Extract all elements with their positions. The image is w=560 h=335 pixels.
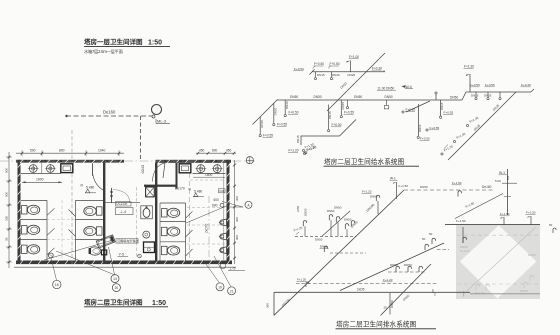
toilet M1 xyxy=(84,206,102,215)
service shaft dashed line xyxy=(136,187,138,258)
riser: centre below 2 xyxy=(340,100,354,118)
svg-text:F+1.20: F+1.20 xyxy=(289,149,299,153)
grid bubble top-right xyxy=(246,157,253,164)
wire: dark line above watermark xyxy=(445,223,540,225)
counter line left sinks xyxy=(21,172,62,174)
wire: right branch end tick xyxy=(531,89,534,92)
hook 3a xyxy=(345,224,348,230)
upper mid riser xyxy=(370,195,380,215)
svg-text:DN50: DN50 xyxy=(334,206,342,210)
svg-text:600: 600 xyxy=(212,203,218,207)
urinal 2 xyxy=(220,233,227,240)
label F+0.20 mid-right xyxy=(402,108,416,114)
label F+0.30 right of top cluster xyxy=(372,66,385,71)
wire: mid-right vertical 2 xyxy=(440,100,442,116)
svg-text:DN15: DN15 xyxy=(328,111,332,119)
sink basin L1 xyxy=(28,164,38,173)
wall hatch notches xyxy=(18,160,230,265)
label F+0.55 right 2 xyxy=(485,83,495,87)
sink basin R2 xyxy=(212,164,223,173)
label F+1.00 flag xyxy=(347,55,360,72)
svg-text:F+1.20: F+1.20 xyxy=(362,190,372,194)
svg-text:800: 800 xyxy=(59,148,65,152)
svg-text:F+1.30: F+1.30 xyxy=(464,65,474,69)
svg-text:20: 20 xyxy=(384,306,388,310)
level mark 5.480 right xyxy=(189,188,205,197)
pipe chase box with X xyxy=(146,187,155,197)
lower dashed branch xyxy=(320,245,367,254)
svg-text:DN50: DN50 xyxy=(141,165,145,174)
label ML-3 xyxy=(156,119,170,124)
dash-dot line x209 xyxy=(208,196,210,268)
label F+0.50 left of branch xyxy=(294,67,304,71)
label 600 top xyxy=(214,198,244,207)
label F+0.30 right end xyxy=(521,83,531,87)
toilet L2 xyxy=(22,225,40,234)
svg-text:16: 16 xyxy=(55,283,59,287)
grid bubble 20 xyxy=(112,284,120,292)
svg-text:F+1.20: F+1.20 xyxy=(460,249,470,253)
stall door L2 xyxy=(47,228,55,235)
wire: right horizontal branch xyxy=(466,91,531,93)
dimension line right vertical xyxy=(233,160,236,264)
svg-text:5.480: 5.480 xyxy=(86,186,94,190)
svg-text:DN15: DN15 xyxy=(260,120,264,128)
wire: diagonal down-left from main xyxy=(258,100,278,120)
bathtub rotated xyxy=(96,235,115,248)
stall partition M1 xyxy=(76,219,104,221)
hook lower xyxy=(324,246,327,252)
level mark 5.480 left xyxy=(81,184,97,193)
dark fixture box lower xyxy=(144,242,155,253)
wire: diagonal from L-branch to F+0.55 xyxy=(340,120,357,137)
label Y-5 xyxy=(118,253,129,257)
label F+0.55 right 1 xyxy=(470,83,480,87)
leader line to bubbles 13/20 xyxy=(109,247,115,275)
wire: second diagonal right xyxy=(340,243,444,291)
svg-text:DN50: DN50 xyxy=(390,300,394,308)
svg-text:F+0.30: F+0.30 xyxy=(521,83,531,87)
wire: long dashed branch y283.5 xyxy=(296,283,437,285)
svg-text:C08: C08 xyxy=(219,189,224,193)
wire: left vertical stub xyxy=(273,292,275,315)
label 1-4 boxed xyxy=(116,208,134,215)
partition alignment lines across corridor xyxy=(47,219,76,221)
riser above watermark 2 xyxy=(526,211,536,226)
svg-text:F+0.55: F+0.55 xyxy=(277,123,287,127)
wire: drainage link diagonal to W-1 xyxy=(455,194,503,219)
svg-text:DN50: DN50 xyxy=(320,245,328,249)
svg-text:De170: De170 xyxy=(175,187,185,191)
P-trap diagB 1 xyxy=(425,244,428,250)
P-trap diagC 3 xyxy=(419,266,422,272)
label F+ left of diagB xyxy=(383,278,393,282)
svg-text:F+0.50: F+0.50 xyxy=(294,67,304,71)
svg-text:19: 19 xyxy=(218,285,222,289)
dashed line x190 xyxy=(189,173,191,258)
svg-text:F+1.20: F+1.20 xyxy=(475,291,485,295)
toilet R1 xyxy=(162,208,180,217)
svg-text:水箱7层2.5m—层平面: 水箱7层2.5m—层平面 xyxy=(84,48,123,55)
P-trap cluster 3 (pair) xyxy=(344,218,355,237)
P-trap top right xyxy=(458,191,461,197)
svg-text:F+1.50: F+1.50 xyxy=(526,211,536,215)
toilet L3 xyxy=(22,245,40,254)
svg-text:DN15: DN15 xyxy=(440,102,444,110)
svg-text:DN: DN xyxy=(506,176,510,180)
label F+1.20 on diagonal 2 xyxy=(453,132,466,143)
wire: junction riser up xyxy=(435,94,437,100)
hook 3b xyxy=(351,221,354,227)
grid bubble 21 xyxy=(214,256,236,295)
svg-text:塔房一层卫生间详图: 塔房一层卫生间详图 xyxy=(84,37,143,46)
wall: horizontal segment left of right section xyxy=(144,185,178,187)
svg-text:DN50: DN50 xyxy=(528,253,536,257)
stall front line left column xyxy=(46,200,48,260)
svg-text:DN25: DN25 xyxy=(484,94,492,98)
svg-text:W-4: W-4 xyxy=(406,85,412,89)
svg-text:DN15: DN15 xyxy=(341,101,345,109)
svg-text:1900: 1900 xyxy=(36,178,44,182)
left end scribble F+1.20 xyxy=(293,225,303,234)
riser below bottom line with DN label xyxy=(390,293,394,315)
W-1 drain stack cluster xyxy=(495,169,517,215)
label F+0.20 rotated xyxy=(305,152,307,154)
svg-text:300: 300 xyxy=(235,196,239,201)
svg-text:360: 360 xyxy=(266,303,270,308)
svg-text:500: 500 xyxy=(30,148,36,152)
oval urinal floor xyxy=(89,247,101,255)
hooks on second diagonal xyxy=(425,238,449,250)
grid bubble 16 xyxy=(53,280,61,288)
dimension line top-right 450/800/450 xyxy=(196,152,236,155)
svg-text:600: 600 xyxy=(214,198,220,202)
wall axis dash-dot across top xyxy=(0,160,255,162)
riser left of watermark xyxy=(456,219,466,243)
grid bubble A right xyxy=(230,201,252,208)
svg-text:DN50: DN50 xyxy=(290,95,298,99)
svg-text:2x50: 2x50 xyxy=(296,205,300,212)
corridor dashed connector 3 xyxy=(187,243,226,245)
wire: long diagonal riser to upper floor xyxy=(327,53,385,111)
wire: mid-right diagonal to junction xyxy=(406,101,430,112)
svg-text:DN15: DN15 xyxy=(317,73,325,77)
svg-text:2: 2 xyxy=(434,292,436,296)
svg-text:F+1.00: F+1.00 xyxy=(349,55,359,59)
stall partition R1 xyxy=(160,221,186,223)
hook 2a xyxy=(329,215,332,221)
riser: below diagonal 3 xyxy=(259,117,273,138)
svg-text:F+1.50: F+1.50 xyxy=(452,181,462,185)
door arc right section xyxy=(152,163,165,182)
svg-text:F+0.55: F+0.55 xyxy=(344,111,354,115)
title: first-floor toilet detail xyxy=(84,37,170,47)
riser: right branch tap 3 xyxy=(499,92,501,100)
door arc middle room xyxy=(110,188,130,203)
wire: right diagonal DN25 down-left xyxy=(448,92,516,160)
mop sink right (dark box) xyxy=(179,164,191,173)
counter line right sinks xyxy=(193,172,226,174)
dimension line top-left 500/800/1040 xyxy=(16,150,124,156)
riser: right branch tap 1 xyxy=(475,92,477,100)
floor drain left xyxy=(48,253,53,258)
svg-text:800: 800 xyxy=(212,148,218,152)
label UCZOK box xyxy=(116,202,132,207)
stall door R1 xyxy=(186,211,193,218)
toilet M2 xyxy=(84,226,102,235)
wall face line below bottom wall xyxy=(14,266,236,268)
label F+0.55 mid-right 3 xyxy=(426,126,440,131)
svg-text:W-1: W-1 xyxy=(390,177,396,181)
svg-text:DN50: DN50 xyxy=(420,185,428,189)
grid bubble 19 xyxy=(203,260,224,291)
leader lines long diagonal from plan interior xyxy=(44,240,113,260)
svg-text:2xD70: 2xD70 xyxy=(205,224,209,233)
label F+0.55 mid-right 2 xyxy=(440,111,454,119)
riser: below diagonal 2 xyxy=(273,103,288,126)
wire: top dashed horizontal xyxy=(404,189,495,191)
svg-text:F+0.55: F+0.55 xyxy=(430,126,440,130)
watermark faint texts xyxy=(460,245,536,295)
svg-text:DN50: DN50 xyxy=(327,209,335,213)
svg-text:DN15: DN15 xyxy=(296,135,300,143)
label F+1.20 mid xyxy=(362,190,372,194)
svg-text:F+0.50: F+0.50 xyxy=(289,111,299,115)
toilet R2 xyxy=(162,227,180,236)
svg-text:F+1.20: F+1.20 xyxy=(383,278,393,282)
riser: right branch tap 2 xyxy=(487,92,489,100)
door arc left section xyxy=(92,163,105,192)
wire: bend up to right branch xyxy=(462,92,466,100)
dim 1800 under right sinks xyxy=(193,173,225,177)
node: inlet end dot xyxy=(65,115,67,117)
wire: lower mid L-branch xyxy=(301,136,340,145)
svg-text:DN50: DN50 xyxy=(520,289,528,293)
svg-text:300: 300 xyxy=(235,217,239,222)
wall: top-left xyxy=(16,160,124,163)
label F+1.20 on diagonal 1 xyxy=(466,116,479,127)
title: drainage system xyxy=(336,320,437,329)
svg-text:F+0.20: F+0.20 xyxy=(406,108,416,112)
label F+1.20 lower left tail xyxy=(304,142,315,149)
svg-text:DN50: DN50 xyxy=(304,208,308,216)
title: second-floor toilet detail xyxy=(84,298,168,308)
svg-text:450: 450 xyxy=(199,148,205,152)
wall: vertical x156 xyxy=(155,163,157,262)
label box 1-5 bottom right xyxy=(220,263,245,271)
svg-text:5.480: 5.480 xyxy=(194,189,202,193)
urinal 1 xyxy=(220,219,227,226)
svg-text:DN50: DN50 xyxy=(390,263,398,267)
P-trap diagC 1 xyxy=(396,266,399,272)
label F+1.20 pair xyxy=(288,149,305,153)
label F+0.20 rotated near title xyxy=(303,145,316,155)
svg-text:20: 20 xyxy=(115,286,119,290)
svg-text:5.00: 5.00 xyxy=(495,179,501,183)
label F+1.50 top right xyxy=(452,181,462,185)
dark square fixture xyxy=(102,250,107,255)
wall: left outer xyxy=(18,160,21,264)
wire: lower-left diagonal tail xyxy=(253,119,259,125)
watermark faint marks xyxy=(457,227,539,291)
label F+1.30 flag right xyxy=(464,65,475,77)
label F+ at left end of long dashed xyxy=(297,278,310,288)
wall inner face line right xyxy=(223,163,225,260)
small box C08 xyxy=(219,189,226,193)
mop sink left (dark box) xyxy=(61,164,73,173)
corridor dashed connector 1 xyxy=(187,207,226,209)
riser: drainage top W-1 xyxy=(390,177,409,200)
wall line under middle door xyxy=(104,202,140,204)
svg-text:F+0.55: F+0.55 xyxy=(263,134,273,138)
svg-text:DN20: DN20 xyxy=(332,73,340,77)
secondary dashed line x62 xyxy=(61,200,63,261)
floor drain right xyxy=(220,203,224,207)
svg-text:900: 900 xyxy=(235,235,239,240)
label F+0.50 top cluster 2 xyxy=(328,62,340,68)
dashed mid branch right xyxy=(388,266,426,272)
svg-text:DN50: DN50 xyxy=(385,95,393,99)
P-trap upper mid xyxy=(376,195,379,201)
svg-text:F+0.55: F+0.55 xyxy=(420,137,430,141)
svg-text:DN50: DN50 xyxy=(314,95,322,99)
small wash sink xyxy=(143,231,150,238)
stall door R2 xyxy=(186,230,193,237)
stall door L3 xyxy=(47,248,55,255)
svg-text:1:50: 1:50 xyxy=(148,40,162,47)
svg-text:DN15: DN15 xyxy=(471,94,479,98)
svg-text:De160: De160 xyxy=(482,185,492,189)
svg-text:Y-5: Y-5 xyxy=(119,253,125,257)
svg-text:ML-3: ML-3 xyxy=(157,119,167,124)
stall partition M2 xyxy=(76,239,104,241)
riser above watermark 1 xyxy=(500,212,510,225)
hook 2b xyxy=(336,217,339,223)
svg-text:330: 330 xyxy=(5,216,9,221)
P-trap diagC 2 xyxy=(408,266,411,272)
small drain circle bottom shaft xyxy=(138,254,142,258)
P-trap cluster 1 xyxy=(296,205,308,236)
riser right of crossing xyxy=(346,100,348,109)
dimension line left vertical xyxy=(6,152,12,268)
sink basin R1 xyxy=(195,164,206,173)
wire: bottom main horizontal xyxy=(274,291,470,293)
svg-text:11.00 DN50: 11.00 DN50 xyxy=(378,87,395,91)
svg-text:DN50: DN50 xyxy=(315,238,323,242)
stall partition L1 xyxy=(21,219,48,221)
svg-text:F+0.55: F+0.55 xyxy=(444,111,454,115)
wire: third diagonal crossing bottom xyxy=(381,264,432,316)
svg-text:F+1.50: F+1.50 xyxy=(456,219,466,223)
svg-text:塔房二层卫生间排水系统图: 塔房二层卫生间排水系统图 xyxy=(336,320,417,329)
dim 1900 xyxy=(22,178,62,184)
stall partition L2 xyxy=(21,239,48,241)
wire: De160 inlet dashed pipe xyxy=(66,116,152,160)
grid bubble 13 xyxy=(111,275,119,283)
labels on right clusters xyxy=(390,232,433,302)
riser: top branch tap 1 xyxy=(314,72,316,80)
wall: right outer xyxy=(227,160,230,264)
svg-text:UCZOK: UCZOK xyxy=(116,202,128,206)
stall door M2 xyxy=(69,230,76,237)
hook 1 xyxy=(303,221,306,227)
small stub with box below main xyxy=(384,100,388,109)
svg-text:DN20: DN20 xyxy=(273,107,277,115)
label F+1.20 on diagonal 3 xyxy=(441,144,454,155)
tick below watermark xyxy=(463,291,465,297)
svg-text:1:50: 1:50 xyxy=(152,300,166,307)
label F+0.50 top cluster 1 xyxy=(313,62,325,68)
riser: below main 1 xyxy=(284,100,299,117)
bottom line mid tick xyxy=(432,289,434,293)
svg-text:DN15: DN15 xyxy=(418,124,422,132)
svg-text:DN50: DN50 xyxy=(354,95,362,99)
toilet R3 xyxy=(162,246,180,255)
manhole ML-3 circle xyxy=(152,105,162,119)
svg-text:DN20: DN20 xyxy=(285,101,289,109)
sink basin L2 xyxy=(45,164,55,173)
svg-text:900: 900 xyxy=(5,168,9,173)
stall door L1 xyxy=(47,208,55,215)
svg-text:DN50: DN50 xyxy=(450,96,458,100)
counter divider left xyxy=(41,163,43,173)
svg-text:50: 50 xyxy=(429,232,433,236)
svg-text:塔房二层卫生间详图: 塔房二层卫生间详图 xyxy=(84,298,143,307)
wall: mop-room divider xyxy=(176,163,178,189)
svg-text:⊥-4: ⊥-4 xyxy=(120,210,127,214)
node: junction circle xyxy=(435,92,437,94)
wall: bottom xyxy=(16,261,232,265)
stall front line middle column xyxy=(75,200,77,260)
P-trap wm left xyxy=(463,237,466,243)
dashed line under right counter xyxy=(190,179,224,181)
svg-text:De160: De160 xyxy=(103,110,116,115)
flag W-4 xyxy=(402,85,414,89)
svg-text:50: 50 xyxy=(422,237,426,241)
svg-text:W-1: W-1 xyxy=(499,171,505,175)
svg-text:1800: 1800 xyxy=(205,173,213,177)
riser: centre below 1 xyxy=(328,105,342,132)
wall: top-right xyxy=(156,160,232,163)
bottom-right line under watermark xyxy=(470,293,540,295)
svg-text:DN50: DN50 xyxy=(370,195,378,199)
svg-text:⊥-5: ⊥-5 xyxy=(229,267,235,271)
svg-text:21: 21 xyxy=(230,289,234,293)
wall: middle vertical x104 xyxy=(103,163,105,262)
centre dashed line x72 xyxy=(71,130,73,268)
stall front line right-middle column xyxy=(185,203,187,261)
stall door R3 xyxy=(186,249,193,256)
wire: right riser to F+1.30 xyxy=(469,74,471,92)
svg-text:900: 900 xyxy=(5,192,9,197)
svg-text:F+0.50: F+0.50 xyxy=(332,123,342,127)
svg-text:1040: 1040 xyxy=(98,148,106,152)
svg-text:2xD5: 2xD5 xyxy=(357,288,365,292)
leader line to bubble 16 xyxy=(51,258,57,281)
svg-text:F+0.55: F+0.55 xyxy=(470,83,480,87)
toilet L1 xyxy=(22,205,40,214)
corridor dashed connector 2 xyxy=(187,224,226,226)
svg-text:F+0.30: F+0.30 xyxy=(372,66,382,70)
svg-text:沉箱填充珍珠岩: 沉箱填充珍珠岩 xyxy=(117,238,139,243)
label 600 leader xyxy=(186,203,230,223)
urinal 3 xyxy=(220,247,227,254)
wire: dashed branch left xyxy=(295,235,356,237)
svg-text:F+1.50: F+1.50 xyxy=(399,184,409,188)
label 11.00 DN50 xyxy=(377,87,396,91)
svg-text:DN50: DN50 xyxy=(404,263,412,267)
wire: main horizontal DN50 xyxy=(277,99,463,101)
